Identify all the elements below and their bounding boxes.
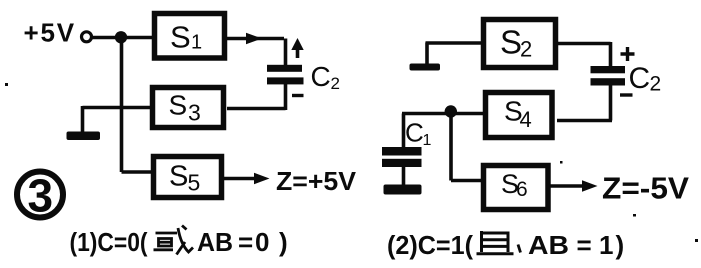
svg-text:=: = [238, 227, 253, 257]
svg-text:3: 3 [188, 100, 201, 126]
svg-text:AB: AB [528, 230, 569, 260]
svg-text:Z=+5V: Z=+5V [276, 166, 357, 196]
svg-text:1: 1 [599, 230, 613, 260]
svg-text:): ) [279, 227, 288, 257]
svg-text:=: = [577, 230, 592, 260]
svg-text:(2)C=1(: (2)C=1( [387, 230, 473, 260]
svg-text:1: 1 [423, 132, 432, 149]
svg-text:+5V: +5V [24, 18, 76, 48]
svg-text:0: 0 [255, 227, 269, 257]
svg-text:2: 2 [520, 37, 532, 62]
svg-text:C: C [629, 62, 651, 95]
svg-text:Z=-5V: Z=-5V [602, 171, 689, 206]
svg-text:5: 5 [188, 170, 201, 196]
svg-text:): ) [616, 230, 625, 260]
svg-text:AB: AB [197, 227, 233, 257]
svg-text:6: 6 [516, 178, 528, 201]
svg-text:4: 4 [520, 107, 532, 132]
svg-text:2: 2 [331, 74, 340, 93]
svg-text:1: 1 [191, 32, 202, 54]
svg-text:3: 3 [28, 170, 54, 222]
svg-text:S: S [170, 20, 191, 55]
svg-text:C: C [311, 61, 331, 92]
svg-text:S: S [500, 24, 522, 61]
svg-text:(1)C=0(: (1)C=0( [70, 227, 148, 257]
svg-text:2: 2 [650, 73, 662, 96]
svg-text:C: C [405, 118, 424, 148]
svg-text:S: S [169, 161, 188, 193]
svg-text:S: S [169, 90, 188, 121]
